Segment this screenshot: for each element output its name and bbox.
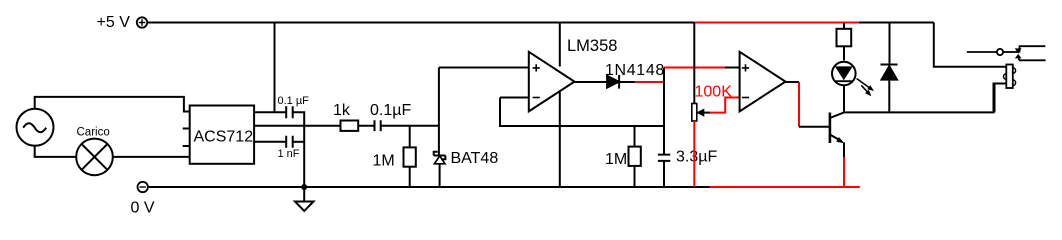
wire resistor to LED <box>843 46 845 60</box>
wire emitter black <box>843 142 845 157</box>
wire op2 out black <box>786 81 800 83</box>
wire AC top to ACS712 <box>35 97 190 112</box>
svg-text:1k: 1k <box>333 102 351 119</box>
wire 1M1 top <box>409 126 411 148</box>
diode BAT48 <box>434 152 446 164</box>
wire coil return <box>995 84 1007 113</box>
switch arrow lower <box>1015 54 1022 58</box>
wire diode out black <box>619 81 634 83</box>
switch common wire <box>967 51 997 53</box>
wire +in2 black <box>725 67 740 69</box>
pin stub IP-1 <box>183 145 190 147</box>
wire +5V drop to pot <box>693 23 695 104</box>
switch throw upper <box>1020 46 1046 52</box>
svg-text:1M: 1M <box>605 151 627 168</box>
wire 3.3uF to gnd <box>663 161 665 187</box>
wire ground rail red <box>710 186 860 188</box>
wire diode out red <box>635 81 665 83</box>
svg-text:Carico: Carico <box>77 127 110 139</box>
wire +5V rail red <box>694 22 859 24</box>
wire +in1 <box>439 67 529 69</box>
resistor 1M first <box>404 147 416 166</box>
lamp Carico <box>76 139 113 176</box>
wire FILTER pin to 1nF <box>254 141 286 143</box>
pin stub IP+2 <box>183 128 190 130</box>
wire dot to ground symbol <box>303 187 305 202</box>
wire pot bottom red <box>693 121 695 187</box>
capacitor 0.1uF bypass <box>286 106 293 118</box>
switch throw lower <box>1019 59 1046 61</box>
transistor Q1 <box>830 112 844 143</box>
wire ground rail black <box>148 186 710 188</box>
wire 1M1 bottom <box>409 167 411 187</box>
wire V- supply op1 <box>559 91 561 187</box>
wire BAT48 to gnd <box>439 163 441 187</box>
wire collector rail <box>844 84 1006 113</box>
svg-text:3.3µF: 3.3µF <box>676 149 717 166</box>
capacitor 0.1uF series <box>375 120 381 131</box>
resistor 1k <box>341 121 359 131</box>
svg-text:BAT48: BAT48 <box>451 150 499 167</box>
wire LED to collector <box>843 85 845 112</box>
wire emitter red <box>843 157 845 187</box>
potentiometer 100K <box>692 104 704 122</box>
svg-text:1M: 1M <box>373 153 395 170</box>
junction dot gnd <box>301 184 307 190</box>
relay coil K1 <box>1004 65 1016 89</box>
wire feedback loop <box>500 98 664 127</box>
switch arrow upper <box>1015 48 1022 53</box>
wire +5V to relay coil <box>934 23 1007 67</box>
resistor 1M second <box>629 147 641 166</box>
wire node B vertical <box>663 68 665 155</box>
wire cap to node A <box>381 125 439 127</box>
wire +5V drop to resistor <box>843 23 845 29</box>
svg-text:LM358: LM358 <box>567 37 617 55</box>
svg-text:0.1µF: 0.1µF <box>370 102 411 119</box>
wire +5V drop to VCC <box>274 23 276 113</box>
wire lamp to ACS712 <box>113 156 190 158</box>
svg-text:0.1 µF: 0.1 µF <box>278 95 310 107</box>
diode 1N4148 <box>607 75 619 89</box>
capacitor 3.3uF <box>658 155 670 161</box>
wire 1k to cap <box>358 125 374 127</box>
terminal 0V <box>138 182 148 192</box>
wire +5V rail right black <box>859 22 934 24</box>
wire wiper red to -in2 <box>710 98 740 113</box>
wire throw lower hook <box>1018 58 1020 60</box>
svg-text:1 nF: 1 nF <box>278 148 300 160</box>
wire node A vertical <box>438 68 440 156</box>
wire +5V drop to diode D2 <box>889 23 891 65</box>
wire 1nF to gnd line <box>293 141 305 143</box>
wire wiper black <box>704 112 711 114</box>
svg-text:+5 V: +5 V <box>97 14 131 31</box>
ground symbol <box>295 202 314 212</box>
svg-text:1N4148: 1N4148 <box>605 62 665 79</box>
op-amp U1A <box>529 52 575 112</box>
svg-text:ACS712: ACS712 <box>194 129 254 146</box>
op-amp U1B <box>740 52 786 112</box>
wire 1M2 bottom <box>634 166 636 187</box>
svg-text:0 V: 0 V <box>131 200 155 217</box>
wire V+ supply op1 <box>559 23 561 67</box>
wire AC bottom to lamp <box>35 145 76 157</box>
terminal +5V <box>137 17 147 27</box>
wire op2 out red down <box>798 82 800 127</box>
wire base black <box>799 126 829 128</box>
AC source V1 <box>17 109 54 146</box>
wire VCC pin to cap <box>254 111 286 113</box>
IC ACS712 <box>190 106 254 164</box>
wire VIOUT to 1k <box>254 125 340 127</box>
LED D1 <box>832 62 874 97</box>
switch contact arm <box>1003 51 1018 53</box>
capacitor 1nF <box>286 136 293 148</box>
switch pole circle <box>997 49 1003 55</box>
wire +5V rail black <box>147 22 694 24</box>
wire node B to +in2 red <box>664 67 725 69</box>
wire D2 to collector rail <box>888 80 890 113</box>
resistor R1 <box>837 29 852 47</box>
wire op1 out <box>575 81 608 83</box>
wire cap to gnd corner <box>293 112 305 187</box>
diode D2 flyback <box>881 65 898 80</box>
wire 1M2 top <box>634 126 636 147</box>
wire -in1 <box>500 97 529 99</box>
